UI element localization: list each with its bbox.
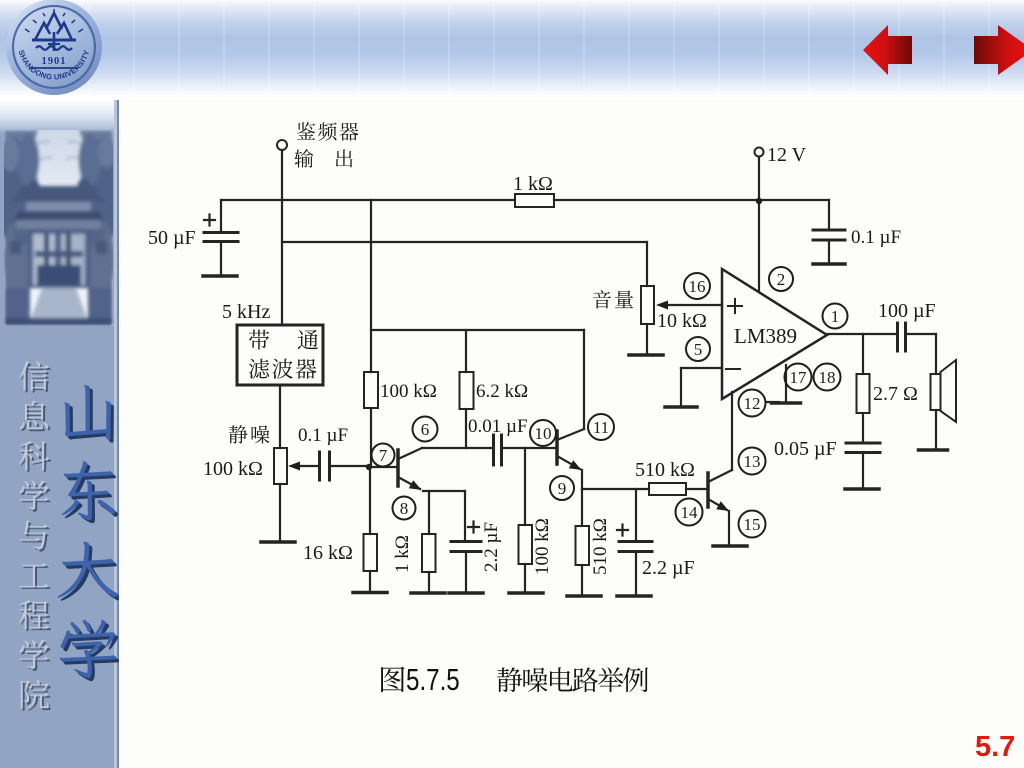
- svg-text:11: 11: [593, 418, 609, 437]
- svg-text:2.2 µF: 2.2 µF: [481, 522, 502, 572]
- svg-text:1: 1: [831, 307, 840, 326]
- svg-text:1 kΩ: 1 kΩ: [392, 535, 413, 573]
- svg-text:6: 6: [421, 420, 430, 439]
- svg-text:7: 7: [379, 446, 388, 465]
- svg-text:1 kΩ: 1 kΩ: [513, 173, 553, 195]
- svg-text:8: 8: [400, 499, 409, 518]
- svg-text:6.2 kΩ: 6.2 kΩ: [476, 381, 528, 402]
- svg-text:13: 13: [744, 452, 761, 471]
- svg-text:9: 9: [558, 479, 567, 498]
- svg-text:510 kΩ: 510 kΩ: [635, 459, 695, 481]
- svg-text:12: 12: [744, 394, 761, 413]
- svg-text:18: 18: [819, 368, 836, 387]
- svg-text:16: 16: [689, 277, 706, 296]
- svg-text:LM389: LM389: [734, 324, 797, 348]
- svg-text:12 V: 12 V: [767, 144, 807, 166]
- svg-text:14: 14: [681, 503, 699, 522]
- svg-text:15: 15: [744, 515, 761, 534]
- svg-text:0.05 µF: 0.05 µF: [774, 438, 837, 460]
- svg-text:510 kΩ: 510 kΩ: [590, 518, 611, 575]
- svg-text:0.01 µF: 0.01 µF: [468, 416, 528, 437]
- svg-text:0.1 µF: 0.1 µF: [851, 227, 901, 248]
- svg-text:100 µF: 100 µF: [878, 300, 936, 322]
- svg-text:100 kΩ: 100 kΩ: [532, 518, 553, 575]
- svg-text:2: 2: [777, 270, 786, 289]
- svg-text:2.7 Ω: 2.7 Ω: [873, 383, 918, 405]
- svg-text:2.2 µF: 2.2 µF: [642, 557, 695, 579]
- svg-text:16 kΩ: 16 kΩ: [303, 542, 353, 564]
- svg-text:10: 10: [535, 424, 552, 443]
- svg-text:5: 5: [694, 340, 703, 359]
- svg-text:100 kΩ: 100 kΩ: [203, 458, 263, 480]
- svg-text:10 kΩ: 10 kΩ: [657, 310, 707, 332]
- svg-text:5 kHz: 5 kHz: [222, 301, 270, 323]
- svg-text:50 µF: 50 µF: [148, 227, 196, 249]
- svg-text:17: 17: [790, 368, 808, 387]
- svg-text:100 kΩ: 100 kΩ: [380, 381, 437, 402]
- svg-text:0.1 µF: 0.1 µF: [298, 425, 348, 446]
- svg-text:5.7.5: 5.7.5: [406, 662, 460, 697]
